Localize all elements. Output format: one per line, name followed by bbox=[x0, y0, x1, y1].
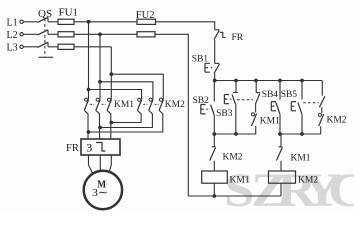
coil KM2 bbox=[269, 171, 296, 183]
wire phase drop 3 bbox=[110, 47, 112, 99]
svg-text:KM2: KM2 bbox=[165, 100, 185, 110]
node branch to KM2 pole2 bbox=[98, 80, 102, 84]
node L1 drop junction bbox=[87, 20, 91, 24]
wire FR to SB1 bbox=[214, 40, 216, 64]
control top bus bbox=[215, 80, 323, 82]
svg-text:SB2: SB2 bbox=[193, 96, 210, 106]
wire SB1 to bus bbox=[214, 73, 216, 80]
switch QS pole 3 blade bbox=[38, 42, 49, 47]
node row1 dot col2 bbox=[234, 132, 238, 136]
svg-text:KM1: KM1 bbox=[114, 100, 134, 110]
node bus col2 bbox=[234, 79, 238, 83]
svg-text:L3: L3 bbox=[7, 43, 18, 54]
node bus col4 bbox=[278, 79, 282, 83]
svg-text:KM2: KM2 bbox=[298, 176, 318, 186]
wire L1 FU1 to FU2 bbox=[74, 21, 137, 23]
wire branch drop1 to KM2 left bbox=[89, 90, 142, 100]
wire QS pole3 to FU1 bbox=[48, 46, 58, 48]
svg-text:SB5: SB5 bbox=[281, 90, 298, 100]
node L2 drop junction bbox=[98, 32, 102, 36]
svg-text:3∼: 3∼ bbox=[92, 187, 108, 199]
node branch to KM2 pole1 bbox=[87, 88, 91, 92]
motor M circle bbox=[84, 171, 122, 209]
fuse FU1 pole 1 bbox=[58, 19, 74, 24]
wire KM2 left crossover to drop3 bbox=[111, 110, 141, 122]
node row2 dot col4 bbox=[278, 132, 282, 136]
terminal L3 bbox=[20, 45, 23, 48]
wire FR to motor left bbox=[89, 155, 93, 173]
pushbutton SB1 (NC stop) bbox=[205, 63, 219, 73]
control bottom bus bbox=[188, 195, 281, 197]
svg-text:FR: FR bbox=[66, 143, 79, 154]
pushbutton SB4 (NO start rev) bbox=[271, 81, 280, 135]
wire QS pole1 to FU1 bbox=[48, 21, 58, 23]
fuse FU1 pole 2 bbox=[58, 32, 74, 37]
wire KM2 right crossover to drop1 bbox=[89, 110, 163, 132]
wire KM1 pole2 to FR bbox=[96, 110, 100, 139]
wire KM2 mid crossover to drop2 bbox=[100, 110, 152, 127]
pushbutton SB5 (NO) bbox=[291, 81, 302, 135]
switch QS pole 1 blade bbox=[38, 17, 49, 22]
svg-text:L2: L2 bbox=[7, 30, 18, 41]
node row KM1 group bbox=[214, 133, 256, 135]
switch QS pole 2 blade bbox=[38, 30, 49, 35]
linkage SB5 dashed bbox=[303, 102, 319, 104]
contact KM1 self-hold column bbox=[251, 81, 260, 135]
node crossover on drop3 bbox=[109, 121, 113, 125]
fuse FU1 pole 3 bbox=[58, 44, 74, 49]
wire KM1 coil to bottom bus bbox=[213, 183, 215, 196]
wire phase drop 2 bbox=[99, 34, 101, 99]
wire branch drop2 to KM2 mid bbox=[100, 82, 153, 99]
svg-text:3: 3 bbox=[86, 141, 92, 155]
wire L2 FU1 to FU2 bbox=[74, 33, 137, 35]
contact KM2 self-hold column bbox=[318, 81, 325, 135]
switch QS handle bar bbox=[39, 56, 54, 58]
fuse FU2 pole 1 bbox=[137, 19, 156, 24]
wire L1 terminal to QS bbox=[23, 21, 37, 23]
svg-text:L1: L1 bbox=[7, 18, 18, 29]
wire phase drop 1 bbox=[88, 22, 90, 99]
node row2 dot col5 bbox=[300, 132, 304, 136]
watermark SZRYC bbox=[0, 0, 354, 1]
node crossover on drop1 bbox=[87, 130, 91, 134]
node row KM2 group bbox=[280, 133, 321, 135]
contactor KM1 main contacts bbox=[84, 98, 111, 110]
linkage SB3 dashed bbox=[237, 99, 253, 101]
pushbutton SB3 (NC) column bbox=[224, 81, 237, 135]
terminal L1 bbox=[20, 20, 23, 23]
node row1 dot col1 bbox=[212, 132, 216, 136]
svg-text:KM1: KM1 bbox=[260, 117, 280, 127]
node branch to KM2 pole3 bbox=[109, 72, 113, 76]
svg-text:KM2: KM2 bbox=[223, 153, 243, 163]
wire FR to motor right bbox=[109, 155, 111, 173]
thermal relay FR heater box bbox=[81, 139, 120, 155]
node bus col5 bbox=[300, 79, 304, 83]
wire L3 FU1 to corner bbox=[74, 46, 111, 48]
wire KM1 pole3 to FR bbox=[107, 110, 111, 139]
svg-text:FU1: FU1 bbox=[59, 6, 79, 18]
wire branch drop3 to KM2 right bbox=[111, 74, 163, 99]
contactor KM2 main contacts bbox=[137, 98, 163, 110]
svg-text:KM1: KM1 bbox=[291, 154, 311, 164]
node bottom bus KM1 bbox=[212, 194, 216, 198]
fuse FU2 pole 2 bbox=[137, 32, 155, 37]
svg-text:SB1: SB1 bbox=[192, 54, 209, 64]
wire FR to motor mid bbox=[99, 155, 101, 170]
svg-text:FU2: FU2 bbox=[136, 10, 155, 21]
control: FR NC contact bbox=[214, 30, 226, 40]
pushbutton SB2 (NO start fwd) bbox=[201, 81, 215, 135]
svg-text:KM2: KM2 bbox=[327, 116, 347, 126]
svg-text:QS: QS bbox=[38, 8, 52, 20]
svg-text:SB3: SB3 bbox=[216, 109, 233, 119]
coil KM1 bbox=[202, 171, 228, 183]
contact KM1 NC interlock bbox=[276, 134, 282, 171]
svg-text:KM1: KM1 bbox=[230, 176, 250, 186]
wire KM2 coil to bottom bus bbox=[280, 183, 282, 196]
contact KM2 NC interlock bbox=[210, 134, 216, 171]
wire QS pole2 to FU1 bbox=[48, 33, 58, 35]
terminal L2 bbox=[20, 33, 23, 36]
wire L2 FU2 to left rail bbox=[155, 34, 188, 196]
node crossover on drop2 bbox=[98, 126, 102, 130]
wire L3 terminal to QS bbox=[23, 46, 37, 48]
svg-text:FR: FR bbox=[232, 33, 244, 43]
svg-text:SB4: SB4 bbox=[262, 90, 279, 100]
wire KM1 pole1 to FR bbox=[84, 110, 88, 139]
wire L2 terminal to QS bbox=[23, 33, 37, 35]
wire L1 FU2 to control corner bbox=[156, 22, 215, 30]
node bus col3 bbox=[254, 79, 258, 83]
node bus col1 bbox=[213, 79, 217, 83]
switch QS linkage dashed bbox=[44, 19, 46, 57]
